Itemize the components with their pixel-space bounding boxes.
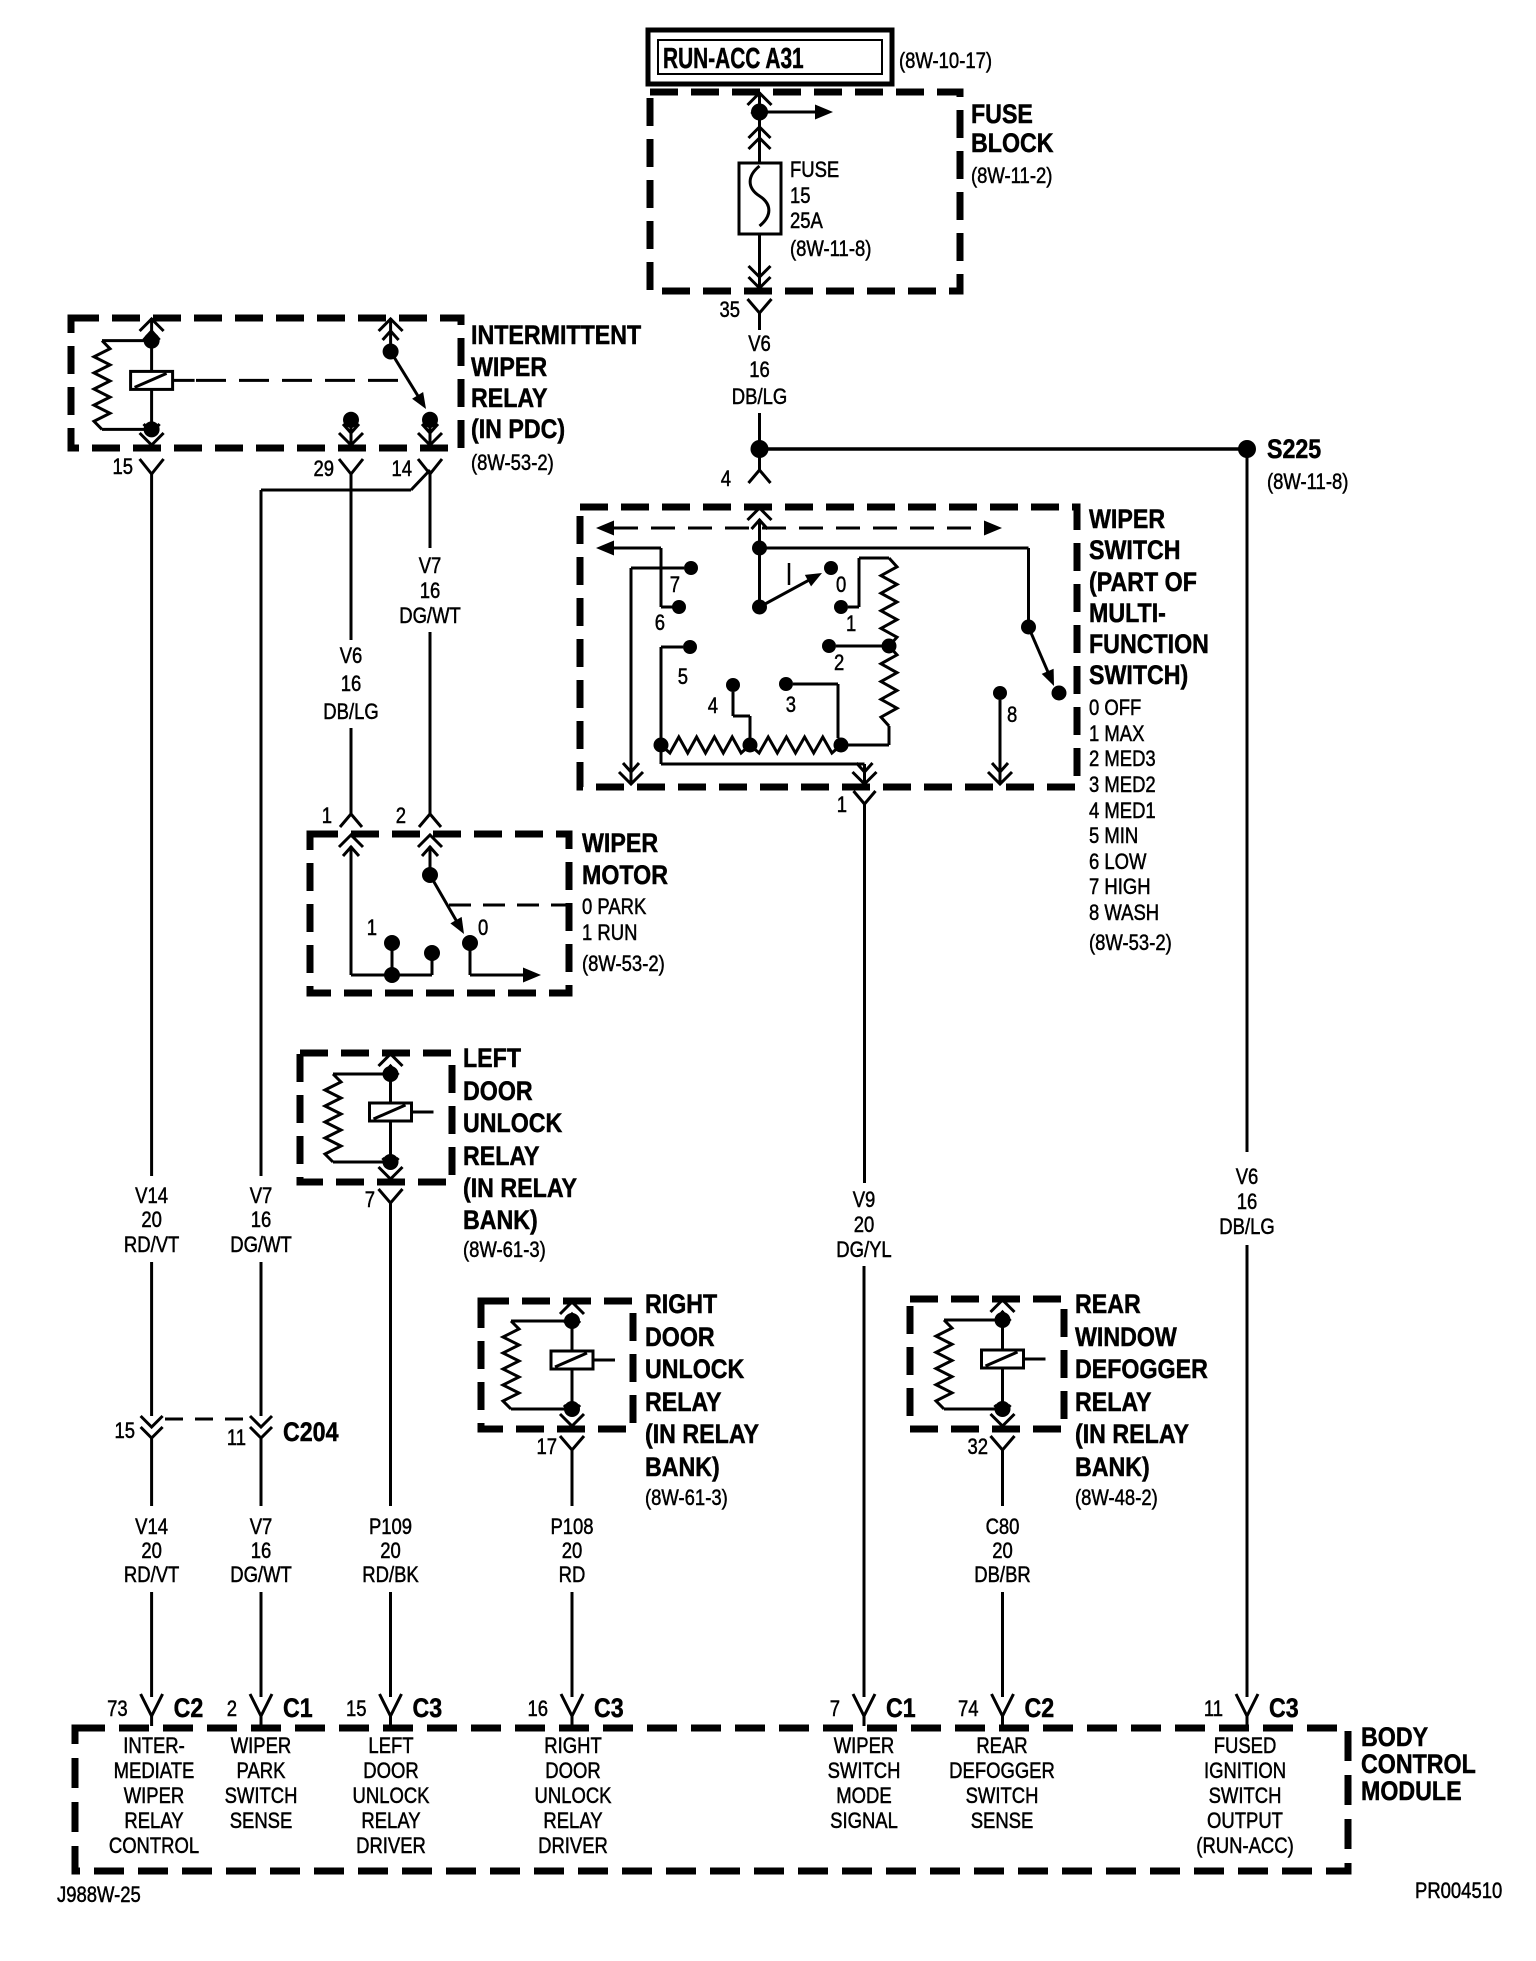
power source box RUN-ACC A31: [648, 30, 892, 84]
wire V9 from wiper switch: [863, 815, 866, 1183]
wire label V14 20 RD/VT (lower): [124, 1516, 179, 1588]
connector Y BCM pin 15: [380, 1694, 402, 1726]
rear window defogger relay dashed box: [910, 1299, 1064, 1429]
pin 29 label: [313, 458, 334, 482]
defogger relay coil: [982, 1320, 1046, 1409]
svg-text:1: 1: [846, 613, 856, 637]
arrow right (bus feed): [760, 105, 834, 120]
connector name C1 at pin 7: [886, 1693, 916, 1723]
wire common to right switch: [760, 548, 1029, 620]
motor middle contact: [424, 945, 440, 975]
reference label (8W-10-17): [899, 50, 992, 74]
svg-text:MODULE: MODULE: [1361, 1776, 1462, 1806]
svg-text:(8W-53-2): (8W-53-2): [471, 452, 554, 476]
svg-text:2: 2: [227, 1698, 237, 1722]
sheet number J988W-25: [57, 1884, 141, 1908]
wire to contact 6: [661, 548, 673, 607]
wire motor pin1 internal: [351, 846, 386, 975]
connector Y at fuse block pin 35: [748, 299, 772, 330]
left door relay coil: [370, 1074, 434, 1162]
svg-text:V7: V7: [419, 555, 442, 579]
exit arrow relay pin 29: [339, 424, 363, 445]
svg-text:SENSE: SENSE: [230, 1810, 293, 1834]
junction coil bottom right door: [564, 1401, 580, 1417]
svg-text:25A: 25A: [790, 210, 823, 234]
svg-text:RELAY: RELAY: [543, 1810, 603, 1834]
svg-text:4 MED1: 4 MED1: [1089, 800, 1156, 824]
horizontal resistor right half: [750, 737, 841, 753]
wire C80 to BCM: [1001, 1592, 1004, 1697]
wire run output with arrow: [470, 950, 541, 983]
svg-text:20: 20: [562, 1540, 583, 1564]
pin 15 label at C204: [114, 1420, 135, 1444]
dashed actuation line: [196, 379, 408, 382]
svg-text:(IN RELAY: (IN RELAY: [645, 1419, 759, 1449]
wire label V6 16 DB/LG (right): [1219, 1166, 1274, 1240]
BCM pin 16 function label: [535, 1735, 612, 1859]
svg-text:8: 8: [1007, 704, 1017, 728]
svg-text:DEFOGGER: DEFOGGER: [949, 1760, 1055, 1784]
svg-text:15: 15: [114, 1420, 135, 1444]
svg-text:DB/LG: DB/LG: [1219, 1216, 1274, 1240]
wire contact5 to left tap: [661, 647, 683, 738]
svg-text:3: 3: [786, 694, 796, 718]
wire V7 lower segment: [260, 1444, 263, 1506]
junction in fuse block: [751, 104, 768, 121]
svg-text:1 MAX: 1 MAX: [1089, 723, 1145, 747]
wire label V7 16 DG/WT (lower): [230, 1516, 292, 1588]
svg-text:0: 0: [836, 574, 846, 598]
relay contact pin 29: [343, 412, 359, 445]
connector name C2 at pin 74: [1025, 1693, 1055, 1723]
svg-text:2: 2: [396, 805, 406, 829]
defogger relay resistor: [936, 1320, 996, 1409]
arrow up at fuse block top border: [748, 92, 772, 114]
wire from contact 7 down: [631, 568, 684, 784]
entry arrow motor pin 2: [418, 835, 442, 856]
wire junction to wiper switch pin 4: [758, 453, 761, 470]
connector Y relay pin 14: [418, 459, 442, 482]
svg-text:(IN RELAY: (IN RELAY: [463, 1173, 577, 1203]
wire V14 lower segment: [150, 1444, 153, 1506]
pin 7 label at BCM: [830, 1698, 840, 1722]
svg-text:OUTPUT: OUTPUT: [1207, 1810, 1283, 1834]
fuse block dashed box: [650, 92, 960, 291]
connector Y wiper switch pin 1: [854, 791, 876, 815]
connector C204 pin 15 chevrons: [141, 1416, 163, 1444]
svg-text:C3: C3: [1269, 1693, 1299, 1723]
svg-text:BANK): BANK): [463, 1205, 538, 1235]
pin 11 label at C204: [227, 1427, 246, 1451]
body control module dashed box: [75, 1728, 1348, 1871]
svg-text:(8W-11-2): (8W-11-2): [971, 165, 1052, 189]
fuse value label FUSE 15 25A (8W-11-8): [790, 159, 871, 262]
svg-text:0: 0: [478, 917, 488, 941]
svg-text:MULTI-: MULTI-: [1089, 598, 1166, 628]
svg-text:15: 15: [790, 185, 811, 209]
contact 5 (MIN): [678, 640, 697, 689]
wire contact3 down: [793, 684, 838, 738]
svg-text:SWITCH: SWITCH: [966, 1785, 1039, 1809]
svg-text:(8W-61-3): (8W-61-3): [645, 1487, 728, 1511]
svg-text:16: 16: [420, 580, 441, 604]
dashed link to C204: [165, 1418, 248, 1421]
svg-text:DG/YL: DG/YL: [836, 1239, 891, 1263]
contact 0 (OFF): [824, 561, 846, 597]
svg-text:4: 4: [721, 468, 731, 492]
svg-text:16: 16: [251, 1540, 272, 1564]
entry arrow motor pin 1: [339, 835, 363, 856]
svg-text:C2: C2: [1025, 1693, 1055, 1723]
pin 1 label motor: [322, 805, 332, 829]
svg-text:(PART OF: (PART OF: [1089, 567, 1197, 597]
svg-text:UNLOCK: UNLOCK: [645, 1354, 744, 1384]
entry arrow defogger relay: [991, 1300, 1015, 1321]
pin 17 label: [536, 1436, 557, 1460]
svg-text:RELAY: RELAY: [463, 1141, 540, 1171]
label BODY CONTROL MODULE: [1361, 1722, 1476, 1806]
svg-text:WIPER: WIPER: [1089, 504, 1165, 534]
svg-text:5: 5: [678, 666, 688, 690]
junction coil top right door: [564, 1313, 580, 1329]
fuse F15 25A: [739, 163, 781, 234]
reference label (8W-48-2) defogger relay: [1075, 1487, 1158, 1511]
svg-text:1: 1: [837, 794, 847, 818]
wire resistor bottom: [848, 726, 889, 745]
wire label V7 16 DG/WT (pin 14): [399, 555, 461, 629]
svg-text:(IN RELAY: (IN RELAY: [1075, 1419, 1189, 1449]
motor switch pivot: [422, 867, 438, 883]
svg-text:17: 17: [536, 1436, 557, 1460]
wire V6 relay pin29 to motor: [350, 482, 353, 640]
left door relay resistor: [325, 1074, 384, 1162]
svg-text:7 HIGH: 7 HIGH: [1089, 876, 1151, 900]
svg-text:32: 32: [967, 1436, 988, 1460]
label WIPER SWITCH (PART OF MULTI-FUNCTION SWITCH): [1089, 504, 1209, 690]
wire V7 to C204: [260, 1262, 263, 1416]
svg-text:FUSE: FUSE: [971, 99, 1033, 129]
arrow up relay common feed: [379, 318, 403, 345]
connector Y BCM pin 2: [250, 1694, 272, 1726]
svg-text:UNLOCK: UNLOCK: [353, 1785, 430, 1809]
svg-text:BANK): BANK): [1075, 1452, 1150, 1482]
svg-text:P109: P109: [369, 1516, 412, 1540]
svg-text:(RUN-ACC): (RUN-ACC): [1196, 1835, 1293, 1859]
svg-text:16: 16: [341, 673, 362, 697]
svg-text:RELAY: RELAY: [361, 1810, 421, 1834]
svg-text:DOOR: DOOR: [645, 1322, 715, 1352]
connector C204 pin 11 chevrons: [250, 1416, 272, 1444]
connector Y defogger pin 32: [991, 1436, 1015, 1462]
left door unlock relay dashed box: [300, 1053, 452, 1182]
wash switch contact: [1052, 686, 1067, 701]
svg-text:LEFT: LEFT: [368, 1735, 413, 1759]
wire mode signal output: [661, 752, 865, 784]
connector Y motor pin 2: [419, 814, 441, 827]
exit arrow relay pin 14: [418, 424, 442, 445]
svg-text:C3: C3: [413, 1693, 443, 1723]
entry arrow wiper switch pin 4: [748, 508, 772, 529]
svg-text:REAR: REAR: [1075, 1289, 1141, 1319]
connector Y BCM pin 74: [992, 1694, 1014, 1726]
wire V14 to BCM: [150, 1592, 153, 1697]
svg-text:WINDOW: WINDOW: [1075, 1322, 1177, 1352]
connector name C3 at pin 11: [1269, 1693, 1299, 1723]
svg-text:RD/BK: RD/BK: [362, 1564, 419, 1588]
wire P108 to BCM: [571, 1592, 574, 1697]
svg-text:V14: V14: [135, 1185, 168, 1209]
svg-text:4: 4: [708, 695, 718, 719]
BCM pin 2 function label: [225, 1735, 298, 1834]
wire - fuse block feed: [758, 103, 761, 163]
pin 74 label at BCM: [958, 1698, 979, 1722]
wire motor pin2 internal: [429, 846, 432, 869]
connector Y left door pin 7: [379, 1189, 403, 1215]
svg-text:0 OFF: 0 OFF: [1089, 697, 1141, 721]
arc dash mark: [788, 563, 791, 585]
svg-text:C80: C80: [986, 1516, 1020, 1540]
svg-text:SENSE: SENSE: [971, 1810, 1034, 1834]
svg-text:UNLOCK: UNLOCK: [535, 1785, 612, 1809]
pin 1 label: [837, 794, 847, 818]
connector name C204: [283, 1417, 339, 1447]
junction coil bottom defogger: [995, 1401, 1011, 1417]
junction relay coil bottom: [144, 421, 160, 437]
entry arrow left door relay: [379, 1054, 403, 1075]
svg-text:5 MIN: 5 MIN: [1089, 825, 1138, 849]
label REAR WINDOW DEFOGGER RELAY (IN RELAY BANK): [1075, 1289, 1208, 1482]
svg-text:15: 15: [346, 1698, 367, 1722]
svg-text:SWITCH): SWITCH): [1089, 660, 1188, 690]
svg-text:2: 2: [834, 652, 844, 676]
svg-text:DB/BR: DB/BR: [974, 1564, 1030, 1588]
svg-text:7: 7: [365, 1189, 375, 1213]
svg-text:7: 7: [670, 574, 680, 598]
wire label V9 20 DG/YL: [836, 1189, 891, 1263]
svg-text:V14: V14: [135, 1516, 168, 1540]
contact 7: [670, 561, 698, 597]
svg-text:(8W-61-3): (8W-61-3): [463, 1239, 546, 1263]
svg-text:FUSED: FUSED: [1214, 1735, 1277, 1759]
resistor lower (speed): [881, 646, 897, 726]
connector name C3 at pin 16: [594, 1693, 624, 1723]
wire contact1 to resistor top: [848, 558, 889, 607]
connector name C3 at pin 15: [413, 1693, 443, 1723]
reference label (8W-61-3) left door relay: [463, 1239, 546, 1263]
right door relay coil: [551, 1321, 615, 1409]
svg-text:DOOR: DOOR: [463, 1076, 533, 1106]
svg-text:(IN PDC): (IN PDC): [471, 414, 565, 444]
svg-text:DG/WT: DG/WT: [399, 605, 461, 629]
wire contact4 to middle tap: [733, 692, 750, 738]
svg-text:20: 20: [141, 1209, 162, 1233]
svg-text:INTER-: INTER-: [123, 1735, 185, 1759]
rotor pivot: [752, 600, 767, 615]
wire label V14 20 RD/VT (upper): [124, 1185, 179, 1258]
wire pin4 to common: [758, 519, 761, 548]
wire V7 diagonal from pin 14: [261, 470, 430, 1176]
pin 11 label at BCM: [1204, 1698, 1223, 1722]
wire P108 upper: [571, 1462, 574, 1506]
wire contact2 to tap: [836, 645, 882, 648]
connector name C2 at pin 73: [174, 1693, 204, 1723]
BCM pin 15 function label: [353, 1735, 430, 1859]
svg-text:RIGHT: RIGHT: [645, 1289, 718, 1319]
pin 32 label: [967, 1436, 988, 1460]
svg-text:20: 20: [992, 1540, 1013, 1564]
relay switch contact (pin 14): [422, 412, 438, 445]
svg-text:SWITCH: SWITCH: [225, 1785, 298, 1809]
reference label (8W-53-2) relay: [471, 452, 554, 476]
svg-text:11: 11: [227, 1427, 246, 1451]
svg-text:16: 16: [527, 1698, 548, 1722]
pin 73 label at BCM: [107, 1698, 128, 1722]
svg-text:C204: C204: [283, 1417, 339, 1447]
arrow at bottom border (wash return): [619, 763, 643, 784]
pin 16 label at BCM: [527, 1698, 548, 1722]
svg-text:20: 20: [380, 1540, 401, 1564]
connector Y relay pin 29: [339, 459, 363, 482]
svg-text:WIPER: WIPER: [124, 1785, 185, 1809]
connector Y right door pin 17: [560, 1436, 584, 1462]
svg-text:2 MED3: 2 MED3: [1089, 748, 1156, 772]
wire V9 to BCM: [863, 1266, 866, 1697]
svg-text:35: 35: [719, 299, 740, 323]
svg-text:(8W-53-2): (8W-53-2): [582, 953, 665, 977]
svg-text:UNLOCK: UNLOCK: [463, 1108, 562, 1138]
pin 15 label at BCM: [346, 1698, 367, 1722]
wire P109 to BCM: [389, 1592, 392, 1697]
wire label P108 20 RD: [550, 1516, 593, 1588]
junction wiper switch common: [752, 541, 767, 556]
horizontal resistor left half: [661, 737, 750, 753]
contact 3 (MED2): [779, 677, 796, 717]
dashed position line motor: [449, 904, 566, 907]
connector Y BCM pin 11: [1236, 1694, 1258, 1726]
resistor upper (speed): [881, 558, 897, 646]
svg-text:V6: V6: [748, 333, 771, 357]
connector Y relay pin 15: [140, 459, 164, 482]
svg-text:RELAY: RELAY: [124, 1810, 184, 1834]
wiper switch dashed box: [580, 507, 1077, 787]
contact 1 (MAX): [834, 600, 856, 636]
svg-text:3 MED2: 3 MED2: [1089, 774, 1156, 798]
wash switch pivot: [1021, 620, 1036, 635]
drawing number PR004510: [1415, 1880, 1502, 1904]
junction resistor tap: [882, 639, 897, 654]
splice S225: [1238, 434, 1348, 494]
junction horizontal resistor left: [654, 738, 669, 753]
svg-text:74: 74: [958, 1698, 979, 1722]
svg-text:(8W-53-2): (8W-53-2): [1089, 932, 1172, 956]
svg-text:WIPER: WIPER: [471, 352, 547, 382]
pin 2 label motor: [396, 805, 406, 829]
svg-text:BANK): BANK): [645, 1452, 720, 1482]
svg-text:1 RUN: 1 RUN: [582, 922, 637, 946]
wire V14 upper segment: [150, 482, 153, 1176]
svg-text:RELAY: RELAY: [1075, 1387, 1152, 1417]
pin 35 label: [719, 299, 740, 323]
wire V7 to motor pin 2: [429, 632, 432, 814]
svg-text:1: 1: [367, 917, 377, 941]
junction coil top left door: [383, 1065, 399, 1082]
relay coil K1: [131, 341, 195, 430]
intermittent wiper relay dashed box: [71, 318, 461, 448]
svg-text:DG/WT: DG/WT: [230, 1564, 292, 1588]
svg-text:FUNCTION: FUNCTION: [1089, 629, 1209, 659]
motor contact 1 (RUN): [367, 917, 400, 951]
junction horizontal resistor right: [834, 738, 849, 753]
svg-text:SWITCH: SWITCH: [1089, 535, 1181, 565]
pin 7 label: [365, 1189, 375, 1213]
svg-text:LEFT: LEFT: [463, 1043, 522, 1073]
svg-text:DEFOGGER: DEFOGGER: [1075, 1354, 1208, 1384]
exit arrow left door relay pin 7: [379, 1158, 403, 1179]
svg-text:7: 7: [830, 1698, 840, 1722]
wire contact8 down: [999, 700, 1002, 784]
svg-text:29: 29: [313, 458, 334, 482]
wire C80 upper: [1001, 1462, 1004, 1506]
svg-text:PR004510: PR004510: [1415, 1880, 1502, 1904]
exit arrow relay pin 15: [140, 424, 164, 445]
svg-text:14: 14: [391, 458, 412, 482]
svg-text:FUSE: FUSE: [790, 159, 839, 183]
svg-text:16: 16: [251, 1209, 272, 1233]
svg-text:RELAY: RELAY: [471, 383, 548, 413]
contact 8 (WASH): [993, 686, 1017, 727]
svg-text:C3: C3: [594, 1693, 624, 1723]
wire label V7 16 DG/WT (upper): [230, 1185, 292, 1258]
svg-text:C2: C2: [174, 1693, 204, 1723]
svg-text:DG/WT: DG/WT: [230, 1234, 292, 1258]
svg-text:20: 20: [141, 1540, 162, 1564]
svg-text:V9: V9: [853, 1189, 876, 1213]
BCM pin 11 function label: [1196, 1735, 1293, 1859]
wire label P109 20 RD/BK: [362, 1516, 419, 1588]
svg-text:16: 16: [1237, 1191, 1258, 1215]
BCM pin 7 function label: [828, 1735, 901, 1834]
svg-text:V6: V6: [1236, 1166, 1259, 1190]
wiper motor dashed box: [310, 834, 569, 993]
connector Y BCM pin 16: [561, 1694, 583, 1726]
wire common to pivot: [758, 548, 761, 600]
svg-text:MEDIATE: MEDIATE: [114, 1760, 195, 1784]
svg-text:J988W-25: J988W-25: [57, 1884, 141, 1908]
right door unlock relay dashed box: [481, 1301, 633, 1429]
wire below fuse: [758, 234, 761, 291]
reference label (8W-53-2) motor: [582, 953, 665, 977]
svg-text:SWITCH: SWITCH: [828, 1760, 901, 1784]
wire S225 down: [1246, 456, 1249, 1152]
exit arrow wiper switch pin 1: [853, 763, 877, 784]
relay resistor: [94, 341, 145, 430]
svg-text:C1: C1: [283, 1693, 313, 1723]
connector Y at wiper switch pin 4: [749, 470, 771, 483]
svg-text:16: 16: [749, 359, 770, 383]
arrow up relay coil feed: [140, 318, 164, 340]
pin 2 label at BCM: [227, 1698, 237, 1722]
rotor arm toward contact 0: [760, 573, 823, 607]
label FUSE BLOCK (8W-11-2): [971, 99, 1054, 188]
label INTERMITTENT WIPER RELAY (IN PDC): [471, 320, 642, 444]
svg-text:RD: RD: [559, 1564, 586, 1588]
svg-text:V7: V7: [250, 1185, 273, 1209]
svg-text:CONTROL: CONTROL: [1361, 1749, 1476, 1779]
relay switch arm: [391, 352, 426, 410]
junction relay coil top: [144, 333, 160, 349]
svg-text:WIPER: WIPER: [231, 1735, 292, 1759]
contact 2 (MED3): [822, 639, 844, 675]
